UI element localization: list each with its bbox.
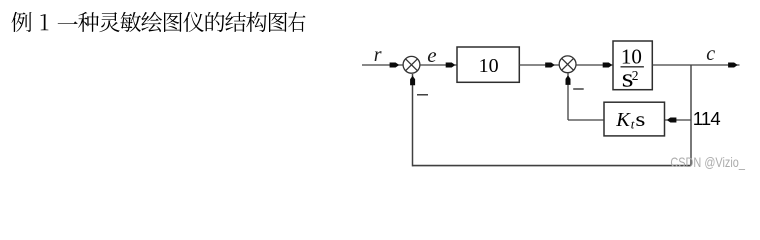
arrowhead into summing junction S2 — [545, 63, 555, 68]
arrowhead into summing junction S1 — [390, 63, 400, 68]
wire: G2 output to c — [652, 64, 739, 66]
wire: inner feedback from takeoff to block G3 — [665, 119, 691, 121]
wire: takeoff vertical line down from node — [690, 65, 692, 166]
minus sign at S1 — [417, 94, 428, 96]
minus sign at S2 — [573, 88, 584, 90]
arrowhead into block G1 — [446, 63, 456, 68]
block G2 (plant 10/s^2) — [613, 41, 652, 90]
wire: vertical up into S2 — [567, 73, 569, 120]
title text: 例 1 一种灵敏绘图仪的结构图右 — [11, 12, 305, 32]
wire: outer feedback bottom horizontal — [413, 165, 692, 167]
summing junction S2 (circle with X) — [559, 56, 576, 73]
wire: outer feedback left vertical up into S1 — [412, 74, 414, 166]
wire: S2 to block G2 — [576, 64, 613, 66]
svg-text:r: r — [374, 44, 382, 66]
block G3 (rate feedback Kt s) — [604, 102, 665, 136]
svg-text:t: t — [631, 117, 635, 132]
fraction bar — [621, 66, 644, 68]
arrowhead output c — [728, 63, 738, 68]
block G1 (gain 10) — [457, 47, 519, 82]
wire: input r line — [362, 64, 403, 66]
wire: G1 output to summing junction S2 — [519, 64, 559, 66]
arrowhead into block G3 — [667, 118, 677, 123]
arrowhead up into S2 — [566, 75, 571, 85]
svg-text:CSDN @Vizio_: CSDN @Vizio_ — [670, 155, 745, 170]
arrowhead up into S1 — [410, 76, 415, 86]
svg-text:2: 2 — [632, 68, 639, 83]
svg-text:e: e — [427, 43, 436, 67]
svg-text:K: K — [615, 109, 631, 131]
arrowhead into block G2 — [603, 63, 613, 68]
svg-text:s: s — [635, 108, 645, 131]
svg-text:10: 10 — [479, 55, 499, 77]
svg-text:114: 114 — [693, 108, 721, 129]
wire: G3 output left — [568, 119, 604, 121]
wire: e signal from S1 to block G1 — [420, 64, 457, 66]
svg-text:c: c — [706, 43, 715, 65]
summing junction S1 (circle with X) — [403, 56, 420, 73]
